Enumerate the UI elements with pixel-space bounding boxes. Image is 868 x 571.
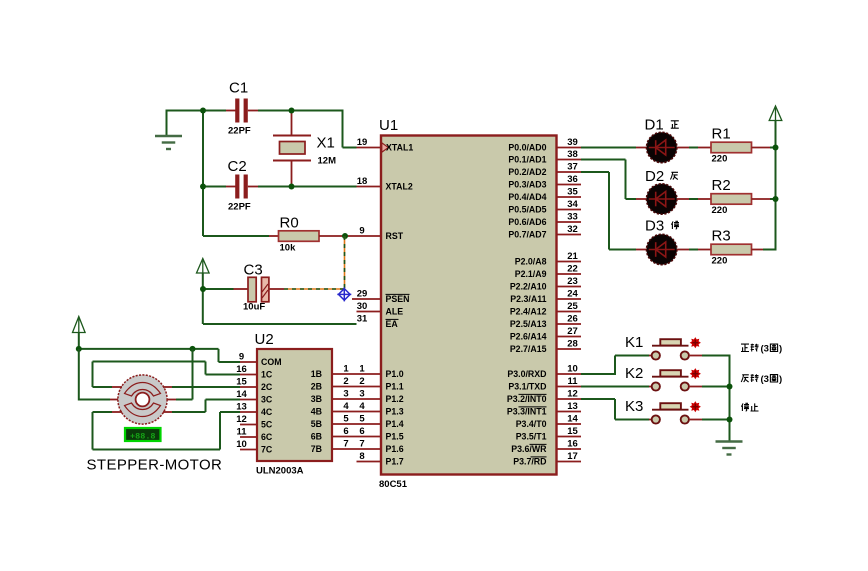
svg-text:33: 33 — [567, 212, 578, 223]
svg-text:P2.7/A15: P2.7/A15 — [510, 344, 547, 354]
svg-text:4: 4 — [359, 401, 365, 412]
svg-text:220: 220 — [712, 256, 728, 267]
svg-text:5B: 5B — [311, 419, 322, 429]
svg-text:P0.4/AD4: P0.4/AD4 — [508, 192, 546, 202]
svg-text:R2: R2 — [712, 177, 731, 194]
svg-text:15: 15 — [567, 426, 578, 437]
svg-text:39: 39 — [567, 137, 578, 148]
svg-text:P2.6/A14: P2.6/A14 — [510, 332, 547, 342]
svg-text:U2: U2 — [255, 331, 274, 348]
svg-text:27: 27 — [567, 326, 578, 337]
svg-text:COM: COM — [261, 357, 282, 367]
svg-text:C2: C2 — [228, 158, 247, 175]
svg-text:P1.1: P1.1 — [386, 382, 404, 392]
svg-text:36: 36 — [567, 174, 578, 185]
svg-text:P3.4/T0: P3.4/T0 — [516, 419, 547, 429]
svg-text:12: 12 — [236, 414, 247, 425]
svg-text:22PF: 22PF — [228, 202, 251, 213]
svg-text:U1: U1 — [379, 117, 398, 134]
svg-text:+88.8: +88.8 — [130, 432, 156, 442]
svg-text:P1.7: P1.7 — [386, 457, 404, 467]
svg-text:1B: 1B — [311, 369, 322, 379]
svg-text:P0.6/AD6: P0.6/AD6 — [508, 217, 546, 227]
svg-text:26: 26 — [567, 314, 578, 325]
svg-text:P1.6: P1.6 — [386, 444, 404, 454]
svg-text:220: 220 — [712, 205, 728, 216]
svg-text:P2.3/A11: P2.3/A11 — [510, 294, 546, 304]
svg-text:25: 25 — [567, 301, 578, 312]
svg-text:D1: D1 — [645, 117, 664, 134]
svg-text:11: 11 — [567, 376, 578, 387]
svg-text:7: 7 — [359, 439, 364, 450]
svg-text:K2: K2 — [625, 365, 643, 382]
svg-text:6C: 6C — [261, 432, 273, 442]
svg-text:8: 8 — [359, 451, 364, 462]
svg-text:6: 6 — [359, 426, 364, 437]
svg-text:P3.0/RXD: P3.0/RXD — [507, 369, 546, 379]
svg-text:(3: (3 — [761, 374, 769, 385]
svg-text:P2.5/A13: P2.5/A13 — [510, 319, 547, 329]
svg-text:12M: 12M — [318, 156, 337, 167]
svg-text:6: 6 — [343, 426, 348, 437]
svg-text:P0.1/AD1: P0.1/AD1 — [508, 155, 546, 165]
svg-text:2: 2 — [343, 376, 348, 387]
svg-text:XTAL2: XTAL2 — [386, 182, 413, 192]
svg-text:D3: D3 — [645, 218, 664, 235]
svg-text:P2.0/A8: P2.0/A8 — [515, 257, 547, 267]
svg-text:3: 3 — [359, 389, 364, 400]
svg-text:P2.1/A9: P2.1/A9 — [515, 269, 547, 279]
svg-text:3: 3 — [343, 389, 348, 400]
svg-text:R0: R0 — [280, 214, 299, 231]
svg-text:16: 16 — [236, 364, 247, 375]
svg-text:4B: 4B — [311, 407, 322, 417]
svg-text:13: 13 — [567, 401, 578, 412]
svg-text:P0.7/AD7: P0.7/AD7 — [508, 230, 546, 240]
svg-text:35: 35 — [567, 187, 578, 198]
svg-text:6B: 6B — [311, 432, 322, 442]
svg-text:2B: 2B — [311, 382, 322, 392]
svg-text:80C51: 80C51 — [379, 479, 408, 490]
svg-text:14: 14 — [567, 414, 578, 425]
svg-text:21: 21 — [567, 251, 578, 262]
svg-text:P1.3: P1.3 — [386, 407, 404, 417]
svg-text:(3: (3 — [761, 344, 769, 355]
svg-text:K3: K3 — [625, 398, 643, 415]
svg-text:4: 4 — [343, 401, 349, 412]
svg-text:15: 15 — [236, 377, 247, 388]
svg-text:C3: C3 — [244, 262, 263, 279]
svg-text:): ) — [779, 374, 782, 385]
svg-text:9: 9 — [239, 352, 244, 363]
svg-text:EA: EA — [386, 319, 399, 329]
svg-text:10: 10 — [567, 364, 578, 375]
svg-text:P3.6/WR: P3.6/WR — [511, 444, 547, 454]
svg-text:10: 10 — [236, 439, 247, 450]
svg-text:7B: 7B — [311, 444, 322, 454]
svg-text:13: 13 — [236, 402, 247, 413]
svg-text:32: 32 — [567, 224, 578, 235]
svg-text:1C: 1C — [261, 370, 273, 380]
svg-text:5: 5 — [359, 414, 365, 425]
svg-text:37: 37 — [567, 162, 578, 173]
svg-text:34: 34 — [567, 199, 578, 210]
svg-text:P1.2: P1.2 — [386, 394, 404, 404]
svg-text:P1.0: P1.0 — [386, 369, 404, 379]
svg-text:5C: 5C — [261, 420, 273, 430]
svg-text:24: 24 — [567, 289, 578, 300]
svg-text:30: 30 — [357, 301, 368, 312]
svg-text:29: 29 — [357, 289, 368, 300]
svg-text:P2.4/A12: P2.4/A12 — [510, 307, 547, 317]
svg-text:220: 220 — [712, 154, 728, 165]
svg-text:7: 7 — [343, 439, 348, 450]
svg-text:10k: 10k — [280, 242, 297, 253]
svg-text:16: 16 — [567, 439, 578, 450]
svg-text:P3.1/TXD: P3.1/TXD — [508, 382, 546, 392]
svg-text:P1.4: P1.4 — [386, 419, 404, 429]
svg-text:ULN2003A: ULN2003A — [256, 466, 304, 477]
svg-text:18: 18 — [357, 176, 368, 187]
svg-text:C1: C1 — [229, 80, 248, 97]
svg-text:P1.5: P1.5 — [386, 432, 404, 442]
svg-text:14: 14 — [236, 389, 247, 400]
svg-text:P3.2/INT0: P3.2/INT0 — [507, 394, 547, 404]
svg-text:): ) — [779, 344, 782, 355]
svg-text:XTAL1: XTAL1 — [386, 143, 413, 153]
svg-text:12: 12 — [567, 389, 578, 400]
svg-text:P3.3/INT1: P3.3/INT1 — [507, 407, 547, 417]
svg-text:2: 2 — [359, 376, 364, 387]
svg-text:28: 28 — [567, 339, 578, 350]
svg-text:P0.0/AD0: P0.0/AD0 — [508, 143, 546, 153]
svg-text:7C: 7C — [261, 445, 273, 455]
svg-text:10uF: 10uF — [243, 302, 265, 313]
svg-text:3C: 3C — [261, 395, 273, 405]
svg-text:R1: R1 — [712, 126, 731, 143]
svg-text:22: 22 — [567, 264, 578, 275]
svg-text:38: 38 — [567, 149, 578, 160]
svg-text:23: 23 — [567, 276, 578, 287]
svg-text:3B: 3B — [311, 394, 322, 404]
svg-text:19: 19 — [357, 137, 368, 148]
svg-text:1: 1 — [359, 364, 365, 375]
svg-text:P3.5/T1: P3.5/T1 — [516, 432, 547, 442]
svg-text:ALE: ALE — [386, 307, 404, 317]
svg-text:P0.5/AD5: P0.5/AD5 — [508, 205, 546, 215]
svg-text:P0.2/AD2: P0.2/AD2 — [508, 167, 546, 177]
svg-text:17: 17 — [567, 451, 578, 462]
svg-text:PSEN: PSEN — [386, 294, 410, 304]
svg-text:X1: X1 — [317, 135, 335, 152]
svg-text:P3.7/RD: P3.7/RD — [513, 457, 546, 467]
svg-text:22PF: 22PF — [228, 126, 251, 137]
svg-text:2C: 2C — [261, 382, 273, 392]
svg-text:STEPPER-MOTOR: STEPPER-MOTOR — [87, 457, 223, 474]
svg-text:1: 1 — [343, 364, 349, 375]
svg-text:4C: 4C — [261, 407, 273, 417]
svg-text:P0.3/AD3: P0.3/AD3 — [508, 180, 546, 190]
svg-text:K1: K1 — [625, 334, 643, 351]
svg-text:31: 31 — [357, 314, 368, 325]
svg-text:R3: R3 — [712, 228, 731, 245]
svg-text:RST: RST — [386, 231, 404, 241]
svg-text:9: 9 — [359, 226, 364, 237]
svg-text:D2: D2 — [645, 168, 664, 185]
svg-text:5: 5 — [343, 414, 349, 425]
svg-text:P2.2/A10: P2.2/A10 — [510, 282, 547, 292]
svg-text:11: 11 — [236, 427, 247, 438]
